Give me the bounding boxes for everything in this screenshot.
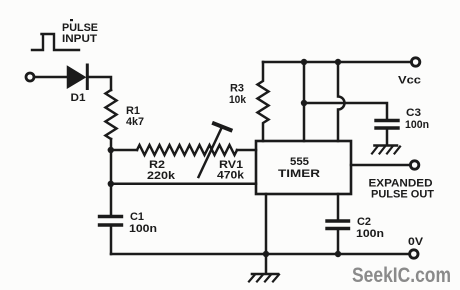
diode D1 bbox=[68, 68, 84, 87]
wire pin at x=304 bbox=[303, 62, 306, 141]
svg-text:SeekIC.com: SeekIC.com bbox=[352, 264, 451, 287]
wire lower node to 555 bbox=[111, 183, 256, 186]
pulse waveform symbol bbox=[32, 34, 79, 50]
node R1/R2 junction bbox=[108, 147, 114, 153]
bottom rail 0V bbox=[111, 253, 409, 256]
input terminal bbox=[26, 73, 34, 81]
wire C2 to bottom rail bbox=[337, 230, 340, 254]
svg-text:10k: 10k bbox=[229, 94, 247, 106]
wire pin x=338 with hop bbox=[338, 62, 345, 141]
resistor R3 bbox=[258, 62, 269, 141]
node bottom rail 338 bbox=[335, 251, 341, 257]
resistor R2 / RV1 track bbox=[137, 145, 237, 155]
svg-text:Vcc: Vcc bbox=[398, 75, 421, 87]
wire 304 to C3 bbox=[304, 103, 387, 118]
svg-text:C3: C3 bbox=[406, 107, 421, 119]
svg-text:4k7: 4k7 bbox=[126, 116, 144, 128]
svg-text:220k: 220k bbox=[147, 170, 176, 182]
capacitor C2 bbox=[327, 219, 349, 222]
node bottom rail 266 bbox=[263, 251, 269, 257]
svg-text:C2: C2 bbox=[357, 216, 371, 228]
svg-text:D1: D1 bbox=[71, 92, 86, 104]
0V terminal bbox=[410, 250, 418, 258]
ground under C3 bbox=[375, 144, 398, 147]
Vcc terminal bbox=[411, 58, 419, 66]
top rail Vcc bbox=[263, 61, 412, 64]
wire to R2 bbox=[111, 149, 137, 152]
wire RV1 to 555 bbox=[237, 149, 256, 152]
svg-text:100n: 100n bbox=[129, 223, 157, 235]
resistor R1 bbox=[106, 90, 117, 139]
svg-text:555: 555 bbox=[290, 156, 309, 168]
node top rail 304 bbox=[301, 59, 307, 65]
RV1 wiper arrow bbox=[199, 128, 222, 177]
wire C1 to bottom rail bbox=[110, 227, 113, 255]
wire diode to R1 bbox=[89, 77, 112, 90]
svg-text:INPUT: INPUT bbox=[62, 33, 97, 45]
node 304/103 bbox=[301, 100, 307, 106]
node C1 junction bbox=[108, 181, 114, 187]
scan speck above PULSE bbox=[70, 19, 73, 21]
svg-text:470k: 470k bbox=[217, 170, 245, 182]
output terminal bbox=[410, 161, 418, 169]
555 timer box U1 bbox=[256, 141, 351, 194]
node top rail 338 bbox=[335, 59, 341, 65]
svg-text:100n: 100n bbox=[405, 119, 429, 131]
svg-text:0V: 0V bbox=[408, 236, 424, 248]
svg-text:100n: 100n bbox=[356, 228, 384, 240]
wire 555 pin1 to ground bbox=[265, 194, 268, 274]
svg-text:C1: C1 bbox=[130, 211, 144, 223]
capacitor C1 bbox=[100, 215, 122, 218]
wire R1 to C1 bbox=[110, 139, 113, 216]
svg-text:PULSE OUT: PULSE OUT bbox=[371, 189, 434, 201]
wire 555 pin to C2 bbox=[337, 194, 340, 220]
svg-text:TIMER: TIMER bbox=[278, 168, 320, 180]
svg-text:R3: R3 bbox=[230, 83, 244, 95]
ground under 555 bbox=[252, 273, 278, 276]
wire input to diode bbox=[34, 76, 68, 79]
capacitor C3 bbox=[376, 119, 398, 122]
wire C3 to ground bbox=[386, 130, 389, 146]
wire 555 output bbox=[351, 164, 411, 167]
